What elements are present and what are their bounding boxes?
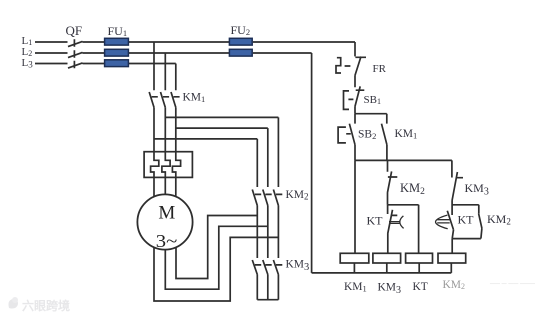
svg-text:L3: L3 — [22, 57, 34, 70]
svg-text:KT: KT — [367, 214, 384, 228]
svg-text:KM2: KM2 — [487, 212, 511, 227]
svg-text:KM3: KM3 — [465, 181, 489, 198]
svg-text:KT: KT — [458, 213, 475, 227]
svg-text:KM3: KM3 — [378, 282, 402, 297]
svg-text:KM1: KM1 — [344, 281, 367, 294]
svg-text:KM3: KM3 — [286, 258, 310, 273]
svg-text:── ─ ── ───: ── ─ ── ─── — [489, 280, 535, 288]
svg-text:FU2: FU2 — [231, 23, 251, 37]
svg-text:QF: QF — [66, 23, 83, 38]
svg-text:M: M — [158, 203, 175, 224]
svg-text:KM1: KM1 — [183, 92, 206, 105]
svg-text:KT: KT — [413, 281, 428, 293]
svg-text:3~: 3~ — [156, 231, 178, 251]
svg-text:SB1: SB1 — [364, 94, 381, 106]
svg-text:KM2: KM2 — [286, 189, 309, 202]
svg-text:KM2: KM2 — [443, 279, 466, 291]
svg-text:FR: FR — [373, 63, 387, 75]
svg-text:SB2: SB2 — [358, 129, 376, 142]
svg-text:KM2: KM2 — [400, 181, 425, 197]
svg-text:KM1: KM1 — [395, 128, 418, 141]
svg-text:六眼跨境: 六眼跨境 — [22, 298, 70, 313]
svg-text:FU1: FU1 — [108, 24, 128, 38]
